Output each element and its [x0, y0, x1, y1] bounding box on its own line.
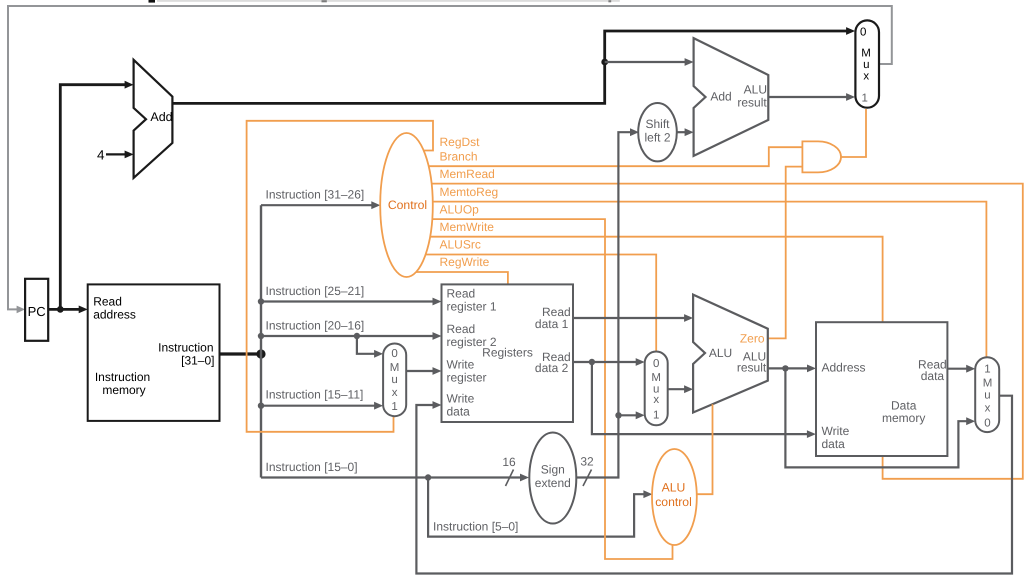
wire: PC-source feedback from top-right mux around top/left into PC: [8, 6, 892, 313]
svg-text:0: 0: [653, 358, 659, 370]
mux: ALU second operand select: [645, 352, 668, 426]
wire: PC+4 to branch adder top input: [605, 58, 694, 66]
adder Add (PC+4): [134, 60, 173, 178]
junction on fan vertical at [15-11]: [258, 403, 264, 409]
junction on ALU result: [782, 365, 788, 371]
control signal MemWrite wire to data memory top: [411, 237, 883, 322]
junction on fan vertical at [25-21]: [258, 298, 264, 304]
control signal Branch wire to AND gate: [412, 147, 802, 166]
wire: branch adder result to top-right mux input 1: [768, 93, 855, 101]
svg-text:ALU: ALU: [662, 480, 686, 494]
svg-text:RegDst: RegDst: [440, 135, 481, 149]
svg-text:Instruction [15–11]: Instruction [15–11]: [266, 388, 364, 402]
svg-text:ALUSrc: ALUSrc: [440, 238, 481, 252]
wire: Instruction [15-11] into write-register mux input 1: [261, 388, 383, 410]
control signal ALUSrc wire to ALU mux select: [412, 255, 656, 352]
svg-text:M: M: [651, 372, 661, 384]
svg-text:RegWrite: RegWrite: [440, 255, 490, 269]
wire: sign extend output up to shift-left-2: [576, 128, 639, 477]
svg-text:Instruction [20–16]: Instruction [20–16]: [266, 319, 365, 333]
svg-text:u: u: [984, 390, 990, 402]
svg-text:M: M: [861, 48, 871, 60]
bus width 16 slash and label: [502, 455, 516, 486]
control signal RegDst wire: up over and down left side to write-register mux select: [247, 121, 433, 432]
wire: data memory read data into right mux input 1: [947, 365, 975, 373]
junction on [20-16] branch to write-register mux: [354, 333, 360, 339]
svg-text:memory: memory: [882, 411, 925, 425]
svg-text:u: u: [391, 374, 397, 386]
shift left 2 unit: [638, 103, 677, 161]
svg-text:1: 1: [984, 364, 990, 376]
svg-text:ALUOp: ALUOp: [440, 202, 480, 216]
svg-text:memory: memory: [102, 383, 145, 397]
AND gate (branch and zero): [802, 141, 841, 172]
svg-text:0: 0: [984, 417, 990, 429]
svg-text:0: 0: [860, 26, 866, 38]
svg-text:Write: Write: [447, 392, 475, 406]
svg-text:Instruction [31–26]: Instruction [31–26]: [266, 187, 365, 201]
svg-text:Write: Write: [447, 358, 475, 372]
svg-text:data: data: [447, 405, 471, 419]
svg-text:4: 4: [97, 147, 105, 162]
svg-text:Read: Read: [447, 287, 476, 301]
wire: instruction fan-out vertical: [260, 205, 262, 477]
control signal RegWrite wire to Registers top: [408, 272, 508, 284]
wire: Read data 2 into ALU mux input 0: [573, 358, 645, 366]
wire: Instruction [20-16] to Read register 2: [261, 319, 442, 340]
svg-text:[31–0]: [31–0]: [181, 354, 214, 368]
svg-text:Read: Read: [447, 322, 476, 336]
wire: AND gate output up to next-PC mux select: [841, 109, 866, 157]
svg-text:address: address: [93, 308, 136, 322]
wire: PC output to instruction memory read address: [48, 306, 87, 314]
svg-text:Control: Control: [388, 198, 427, 212]
junction on Read data 2: [589, 359, 595, 365]
svg-text:Branch: Branch: [440, 149, 478, 163]
svg-text:MemWrite: MemWrite: [440, 220, 495, 234]
register PC: [25, 279, 48, 341]
svg-text:Shift: Shift: [645, 117, 670, 131]
svg-text:Instruction [25–21]: Instruction [25–21]: [266, 284, 365, 298]
wire: Read data 2 down and into data memory write data: [592, 362, 816, 438]
svg-text:extend: extend: [535, 476, 571, 490]
control unit ellipse: [380, 133, 433, 277]
svg-text:register: register: [447, 371, 487, 385]
svg-text:1: 1: [861, 93, 867, 105]
svg-text:Instruction [15–0]: Instruction [15–0]: [266, 460, 358, 474]
svg-text:x: x: [653, 394, 659, 406]
svg-text:data 2: data 2: [535, 361, 569, 375]
wire: shift-left-2 output into branch adder: [676, 128, 694, 136]
svg-text:u: u: [863, 59, 869, 71]
wire: write-register mux output to Registers: [406, 367, 441, 375]
junction on [15-0] at sign-extend input: [425, 474, 431, 480]
svg-text:Add: Add: [710, 90, 731, 104]
control signal MemRead wire around right edge to data memory bottom: [411, 184, 1023, 479]
svg-text:data: data: [921, 369, 945, 383]
wire: PC+4 from Add to top-right mux input 0: [172, 27, 855, 103]
svg-text:M: M: [390, 362, 400, 374]
data memory box: [816, 322, 947, 456]
svg-text:ALU: ALU: [709, 346, 732, 360]
svg-text:left 2: left 2: [644, 131, 670, 145]
wire: Instruction [25-21] to Read register 1: [261, 284, 442, 305]
svg-text:PC: PC: [28, 304, 46, 319]
svg-text:M: M: [983, 378, 993, 390]
junction on PC output: [57, 306, 64, 313]
adder Add (branch target): [694, 38, 769, 156]
svg-text:Address: Address: [822, 361, 866, 375]
wire: [20-16] down into write-register mux input 0: [357, 336, 383, 358]
mux: write register select (0/1): [383, 344, 406, 417]
svg-text:data 1: data 1: [535, 317, 569, 331]
wire: sign-extend output into ALU mux input 1: [619, 411, 645, 419]
svg-text:Registers: Registers: [482, 346, 533, 360]
ALU: [693, 295, 768, 413]
mux: write-back data select (right): [975, 357, 999, 432]
junction on fan vertical at [20-16]: [258, 333, 264, 339]
svg-text:Instruction: Instruction: [158, 341, 213, 355]
svg-text:result: result: [737, 361, 767, 375]
bus width 32 slash and label: [580, 455, 594, 487]
sign extend unit: [529, 433, 576, 524]
control signal MemtoReg wire to right mux select: [411, 202, 986, 358]
wire: ALU Zero output up to AND gate: [768, 167, 803, 339]
wire: ALU mux output into ALU bottom input: [668, 385, 693, 393]
svg-text:Add: Add: [150, 110, 172, 124]
registers block: [442, 284, 574, 422]
ALU control unit: [652, 449, 697, 545]
control signal ALUOp wire down to ALU control: [411, 219, 673, 559]
svg-text:1: 1: [653, 409, 659, 421]
wire: instruction bus out of instruction memory: [220, 352, 262, 355]
svg-text:0: 0: [391, 348, 397, 360]
svg-text:32: 32: [580, 455, 594, 469]
wire: ALU result into data memory address: [768, 365, 816, 373]
mux: next PC select (top right): [855, 20, 879, 107]
wire: Instruction [15-0] to sign extend: [261, 460, 529, 481]
svg-text:control: control: [655, 495, 692, 509]
junction on PC+4 vertical: [601, 59, 608, 66]
wire: Instruction [31-26] to Control: [261, 187, 380, 209]
instruction memory box: [88, 284, 220, 421]
junction on sign-extend output branch to ALU mux: [615, 412, 621, 418]
wire: Read data 1 into ALU top input: [573, 314, 693, 322]
svg-text:x: x: [985, 403, 991, 415]
svg-text:MemtoReg: MemtoReg: [440, 185, 499, 199]
svg-text:1: 1: [391, 401, 397, 413]
wire: ALU result down around to right mux input 0: [785, 368, 975, 467]
wire: write-back mux output around bottom into Registers write data: [416, 396, 1012, 574]
svg-text:data: data: [822, 437, 846, 451]
junction: instruction bus fan-out node: [256, 349, 265, 358]
svg-text:x: x: [392, 387, 398, 399]
svg-text:Read: Read: [93, 295, 122, 309]
cropped text fragment at top: [149, 0, 620, 3]
wire: PC value up the left side to Add: [60, 81, 133, 310]
svg-text:Sign: Sign: [541, 463, 565, 477]
svg-text:register 1: register 1: [447, 300, 497, 314]
wire: ALU control output up into ALU: [697, 404, 713, 494]
wire: Instruction [5-0] to ALU control: [428, 478, 652, 537]
svg-text:x: x: [863, 71, 869, 83]
wire: constant 4 into Add: [106, 151, 134, 159]
svg-text:16: 16: [502, 455, 516, 469]
svg-text:Instruction [5–0]: Instruction [5–0]: [433, 519, 518, 533]
svg-text:MemRead: MemRead: [440, 167, 495, 181]
svg-text:Zero: Zero: [740, 332, 765, 346]
svg-text:Instruction: Instruction: [95, 370, 150, 384]
svg-text:result: result: [737, 95, 767, 109]
